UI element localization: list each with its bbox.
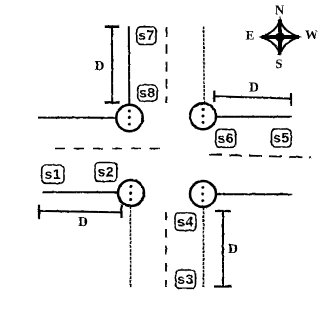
label box s8	[138, 85, 157, 101]
road edge NW horizontal wire	[38, 117, 117, 119]
label box s3	[176, 270, 196, 288]
dimension D south-east	[214, 211, 238, 287]
centerline north dashed	[166, 27, 168, 103]
svg-text:s8: s8	[139, 85, 156, 101]
road edge SW horizontal wire	[42, 191, 118, 193]
svg-text:s6: s6	[218, 130, 235, 146]
svg-text:W: W	[305, 27, 318, 42]
centerline west dashed	[55, 148, 164, 150]
road edge SE vertical wire	[203, 207, 205, 287]
road edge NW vertical wire	[128, 26, 131, 105]
dimension D north-east	[214, 80, 291, 107]
label box s4	[175, 213, 196, 230]
signal head TR	[190, 103, 216, 129]
svg-text:s3: s3	[177, 271, 194, 287]
centerline east dashed	[209, 155, 312, 158]
svg-text:s5: s5	[273, 130, 290, 146]
signal head BL	[118, 180, 144, 206]
svg-text:D: D	[249, 80, 259, 95]
road edge SW vertical wire	[129, 206, 131, 288]
svg-text:s2: s2	[98, 164, 115, 180]
svg-text:s4: s4	[177, 213, 194, 229]
svg-text:N: N	[275, 2, 285, 17]
label box s5	[272, 129, 292, 147]
road edge NE horizontal wire	[217, 116, 292, 118]
label box s7	[137, 27, 156, 45]
label box s2	[95, 163, 117, 182]
svg-text:D: D	[228, 241, 238, 256]
dimension D south-west	[39, 205, 122, 230]
svg-text:E: E	[246, 28, 255, 43]
road edge SE horizontal wire	[217, 193, 292, 195]
signal head BR	[190, 181, 216, 207]
label box s6	[216, 129, 236, 147]
svg-text:S: S	[275, 56, 282, 71]
svg-text:D: D	[95, 58, 105, 73]
svg-text:s7: s7	[138, 27, 155, 43]
centerline south dashed	[165, 212, 167, 287]
label box s1	[42, 165, 64, 183]
compass rose	[262, 20, 300, 56]
road edge NE vertical wire	[203, 27, 206, 104]
signal head TL	[116, 105, 142, 131]
svg-text:D: D	[78, 214, 88, 229]
svg-text:s1: s1	[45, 166, 62, 182]
dimension D north-west	[95, 27, 120, 103]
